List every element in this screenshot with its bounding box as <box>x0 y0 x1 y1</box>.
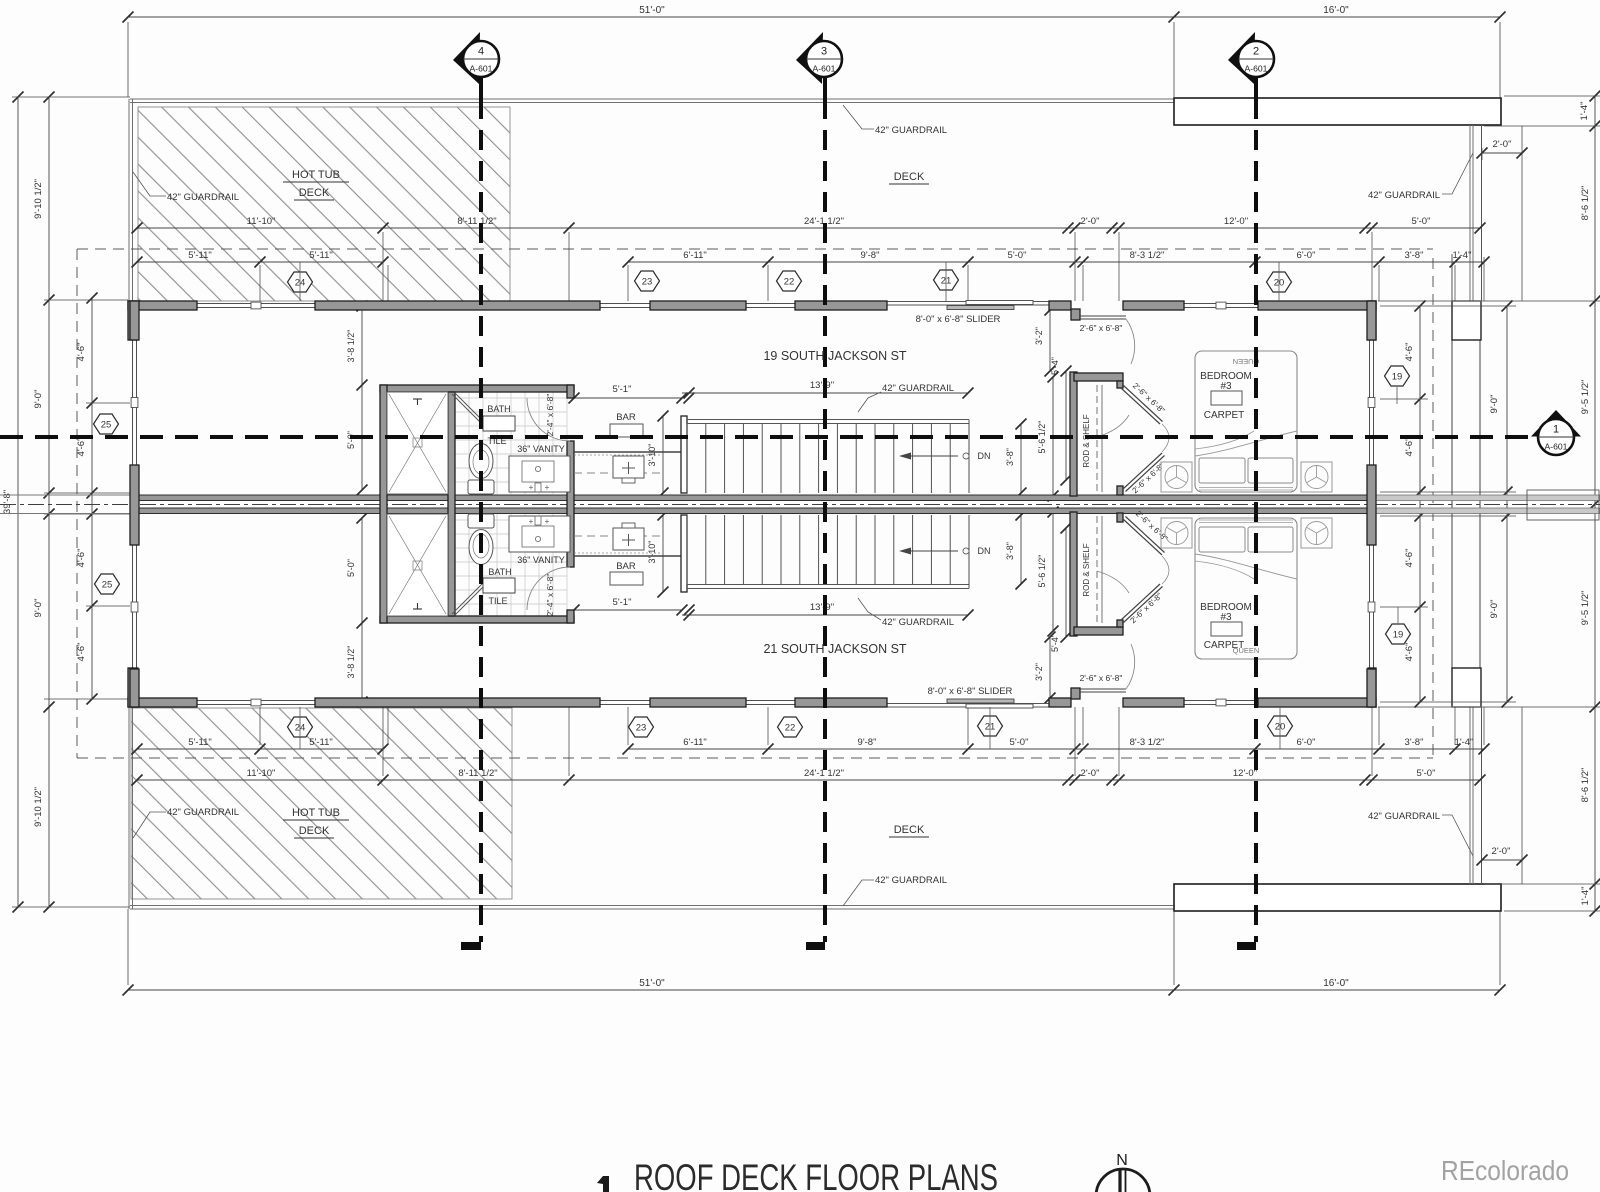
vanity bottom unit <box>509 516 570 552</box>
svg-text:ROD & SHELF: ROD & SHELF <box>1082 414 1091 467</box>
title number mark <box>603 1176 609 1192</box>
bath block tile grid top unit <box>454 392 456 494</box>
section marker 2/A-601 <box>1228 32 1255 84</box>
bath door arc top <box>527 398 570 441</box>
svg-text:42" GUARDRAIL: 42" GUARDRAIL <box>875 875 947 886</box>
setback dashed rectangle <box>77 248 1433 250</box>
svg-text:9'-8": 9'-8" <box>861 250 880 261</box>
party wall projection left <box>0 494 130 496</box>
hall dashes bottom <box>574 535 660 537</box>
dim 3-2 top <box>1049 310 1051 371</box>
svg-text:2: 2 <box>1253 46 1259 58</box>
svg-text:REcolorado: REcolorado <box>1441 1155 1569 1186</box>
shower door bottom <box>452 578 488 614</box>
window left wall upper <box>132 340 134 465</box>
svg-text:51'-0": 51'-0" <box>639 5 665 16</box>
grid bubble 24 <box>288 717 313 737</box>
svg-text:42" GUARDRAIL: 42" GUARDRAIL <box>1368 811 1440 822</box>
grid line 1 (horizontal) <box>0 435 1532 439</box>
svg-text:8'-11 1/2": 8'-11 1/2" <box>458 768 497 779</box>
hall dashes top <box>574 472 660 474</box>
bottom dim row 1 (inner) <box>137 748 383 750</box>
dim 3-8 stairs top <box>1020 424 1022 493</box>
svg-text:9'-0": 9'-0" <box>33 390 44 409</box>
left dim column 39-8 <box>17 97 19 907</box>
DN arrow bottom <box>908 550 958 552</box>
svg-text:5'-1": 5'-1" <box>613 384 632 395</box>
grid bubble 21 <box>934 270 959 290</box>
svg-text:3'-8": 3'-8" <box>1005 542 1015 560</box>
bath block tile grid bottom unit <box>454 514 456 616</box>
svg-text:13'-9": 13'-9" <box>810 602 834 613</box>
svg-text:8'-0" x 6'-8" SLIDER: 8'-0" x 6'-8" SLIDER <box>928 686 1013 697</box>
entry door jog top <box>1071 309 1080 320</box>
overall dimension row bottom : 51ft / 16ft <box>128 989 1500 991</box>
deck left edge lower <box>128 707 130 909</box>
right exterior wall <box>1367 301 1376 340</box>
toilet bottom unit <box>468 514 494 528</box>
svg-text:5'-11": 5'-11" <box>188 737 212 748</box>
window bottom wall 2 <box>600 700 650 702</box>
tub top unit <box>483 416 515 431</box>
svg-text:3: 3 <box>821 46 827 58</box>
svg-text:4'-6": 4'-6" <box>76 549 87 568</box>
svg-text:12'-0": 12'-0" <box>1233 768 1257 779</box>
grid bubble 23 <box>629 717 654 737</box>
svg-text:42" GUARDRAIL: 42" GUARDRAIL <box>1368 190 1440 201</box>
svg-text:4'-6": 4'-6" <box>76 438 87 457</box>
dim extension verticals bottom <box>259 707 261 745</box>
right deck edge line upper <box>1521 126 1523 301</box>
top exterior wall <box>128 301 197 310</box>
window bottom wall 3 <box>746 700 795 702</box>
svg-text:HOT TUB: HOT TUB <box>292 807 340 819</box>
svg-text:8'-0" x 6'-8" SLIDER: 8'-0" x 6'-8" SLIDER <box>916 314 1001 325</box>
dim 3-10 top <box>662 416 664 493</box>
dim 13-9 top <box>682 392 968 394</box>
shower drain bottom <box>413 608 422 610</box>
party wall centerline <box>0 504 1600 506</box>
grid bubble 19 <box>1386 624 1411 644</box>
right guardrail upper <box>1469 125 1471 301</box>
dim 5-6.5 closet bottom <box>1052 512 1054 631</box>
svg-text:3'-8": 3'-8" <box>1005 448 1015 466</box>
svg-text:11'-10": 11'-10" <box>247 216 276 227</box>
svg-text:42" GUARDRAIL: 42" GUARDRAIL <box>875 125 947 136</box>
grid line 2 <box>1254 77 1258 99</box>
svg-text:2'-0": 2'-0" <box>1493 139 1512 150</box>
bath block walls <box>380 385 574 392</box>
svg-text:DN: DN <box>978 451 991 461</box>
entry door arc bottom <box>1126 644 1135 689</box>
right deck edge line lower <box>1521 707 1523 884</box>
svg-text:A-601: A-601 <box>1245 64 1268 74</box>
svg-text:2'-0": 2'-0" <box>1492 846 1511 857</box>
svg-text:A-601: A-601 <box>470 64 493 74</box>
svg-text:16'-0": 16'-0" <box>1323 978 1349 989</box>
svg-text:9'-5 1/2": 9'-5 1/2" <box>1580 591 1591 626</box>
svg-text:CARPET: CARPET <box>1204 410 1245 421</box>
svg-text:ROD & SHELF: ROD & SHELF <box>1082 543 1091 596</box>
bifold door top-unit lower <box>1123 453 1162 489</box>
window top wall 1 <box>197 303 315 305</box>
shower door top <box>452 394 488 430</box>
entry door jog bottom <box>1071 688 1080 699</box>
DN arrow top <box>908 455 958 457</box>
svg-text:6'-11": 6'-11" <box>683 737 707 748</box>
toilet top unit <box>468 480 494 494</box>
svg-text:#3: #3 <box>1220 612 1232 623</box>
svg-text:CARPET: CARPET <box>1204 640 1245 651</box>
svg-text:#3: #3 <box>1220 381 1232 392</box>
left exterior wall <box>130 301 139 340</box>
nightstand bottom-left <box>1161 518 1192 548</box>
bifold door bottom-unit lower <box>1121 584 1160 620</box>
svg-text:+: + <box>545 483 550 492</box>
svg-text:5'-11": 5'-11" <box>188 250 212 261</box>
svg-text:22: 22 <box>784 277 795 288</box>
bottom exterior wall <box>128 698 197 707</box>
svg-text:HOT TUB: HOT TUB <box>292 169 340 181</box>
section marker 1/A-601 <box>1531 410 1581 437</box>
entry door leaf top <box>1080 315 1126 317</box>
bottom wall corner returns <box>128 668 138 707</box>
svg-text:22: 22 <box>785 723 796 734</box>
svg-text:21 SOUTH JACKSON ST: 21 SOUTH JACKSON ST <box>763 642 906 656</box>
svg-text:1'-4": 1'-4" <box>1455 737 1474 748</box>
shower drain top <box>413 398 422 400</box>
deck guardrail top <box>130 98 1174 100</box>
desk top unit <box>613 456 644 478</box>
svg-text:2'-6" x 6'-8": 2'-6" x 6'-8" <box>1080 673 1123 683</box>
dim 5-1 bottom <box>574 609 682 611</box>
svg-text:11'-10": 11'-10" <box>247 768 276 779</box>
svg-text:3'-8 1/2": 3'-8 1/2" <box>346 646 356 679</box>
svg-text:23: 23 <box>636 723 647 734</box>
window top wall 2 <box>600 303 650 305</box>
window right wall lower <box>1369 545 1371 669</box>
bifold door top-unit upper <box>1121 388 1160 424</box>
bed top unit <box>1195 351 1297 492</box>
svg-text:5'-0": 5'-0" <box>346 559 356 577</box>
svg-text:DN: DN <box>978 546 991 556</box>
svg-text:9'-0": 9'-0" <box>33 599 44 618</box>
window top wall 4 <box>1184 303 1258 305</box>
top wall corner returns <box>128 301 138 340</box>
top dim row 1 <box>137 227 1480 229</box>
svg-text:25: 25 <box>101 420 112 431</box>
grid bubble 19 <box>1385 366 1410 386</box>
svg-text:42" GUARDRAIL: 42" GUARDRAIL <box>167 807 239 818</box>
closet rod top <box>1096 385 1098 492</box>
closet wall bottom unit <box>1070 512 1077 636</box>
closet wall top unit <box>1070 372 1077 496</box>
dim 5-0 / 3-8.5 left of bath (bottom unit) <box>361 518 363 702</box>
svg-text:5'-0": 5'-0" <box>1010 737 1029 748</box>
tub bottom unit <box>483 578 515 593</box>
svg-text:5'-4": 5'-4" <box>1050 634 1060 652</box>
grid bubble 23 <box>635 271 660 291</box>
grid bubble 21 <box>978 716 1003 736</box>
right dim column 9-0 <box>1506 306 1508 702</box>
deck guardrail bottom <box>130 905 1174 907</box>
svg-text:1'-4": 1'-4" <box>1453 250 1472 261</box>
svg-text:+: + <box>529 483 534 492</box>
grid bubble 22 <box>777 271 802 291</box>
party wall lower leaf <box>130 508 1376 514</box>
deck band top-right <box>1174 98 1501 125</box>
vanity top unit <box>509 456 570 492</box>
svg-text:4'-6": 4'-6" <box>76 643 87 662</box>
svg-text:3'-8 1/2": 3'-8 1/2" <box>346 330 356 363</box>
svg-text:5'-1": 5'-1" <box>613 597 632 608</box>
grid bubble 25 <box>95 574 120 594</box>
svg-text:BAR: BAR <box>616 561 636 572</box>
svg-text:42" GUARDRAIL: 42" GUARDRAIL <box>167 192 239 203</box>
hall wall top unit <box>574 451 687 453</box>
svg-text:ROOF DECK FLOOR PLANS: ROOF DECK FLOOR PLANS <box>634 1157 998 1192</box>
svg-text:5'-6 1/2": 5'-6 1/2" <box>1037 555 1047 588</box>
svg-text:DECK: DECK <box>299 187 330 199</box>
grid line 3 <box>823 77 827 99</box>
svg-text:1'-4": 1'-4" <box>1580 887 1591 906</box>
hot tub deck (upper) hatch <box>138 107 510 301</box>
shower top unit <box>387 392 448 494</box>
svg-text:N: N <box>1116 1152 1128 1169</box>
svg-text:8'-6 1/2": 8'-6 1/2" <box>1580 768 1591 803</box>
svg-text:A-601: A-601 <box>813 64 836 74</box>
stair rails bottom <box>687 584 969 586</box>
svg-text:4'-6": 4'-6" <box>76 343 87 362</box>
nightstand top-right <box>1301 462 1332 492</box>
svg-text:3'-10": 3'-10" <box>647 541 657 564</box>
svg-text:5'-0": 5'-0" <box>1008 250 1027 261</box>
top dim row 2 <box>137 261 383 263</box>
closet rod bottom <box>1096 516 1098 623</box>
svg-text:42" GUARDRAIL: 42" GUARDRAIL <box>882 617 954 628</box>
section marker 3/A-601 <box>796 32 823 84</box>
closet door arcs bottom <box>1162 556 1169 584</box>
grid bubble 20 <box>1267 272 1292 292</box>
left dim column 4-6 <box>91 298 93 699</box>
svg-text:4: 4 <box>478 46 484 58</box>
svg-text:6'-0": 6'-0" <box>1297 250 1316 261</box>
party wall projection right <box>1376 495 1600 501</box>
dim 3-10 bottom <box>662 515 664 592</box>
dim 5-1 top <box>574 397 682 399</box>
stair newel plate bottom <box>681 515 687 592</box>
grid line 4 <box>479 77 483 99</box>
desk bottom unit <box>613 528 644 550</box>
2-0 dim bottom right <box>1482 859 1522 861</box>
nightstand bottom-right <box>1301 518 1332 548</box>
svg-text:9'-10 1/2": 9'-10 1/2" <box>33 179 44 219</box>
svg-text:5'-0": 5'-0" <box>346 431 356 449</box>
svg-text:1'-4": 1'-4" <box>1579 102 1590 121</box>
svg-text:9'-5 1/2": 9'-5 1/2" <box>1580 380 1591 415</box>
svg-text:3'-2": 3'-2" <box>1034 663 1044 681</box>
right walkway <box>1451 340 1453 668</box>
left dim extension horizontals <box>12 96 130 98</box>
svg-text:4'-6": 4'-6" <box>1404 438 1415 457</box>
deck band bottom-right <box>1174 884 1501 911</box>
entry door leaf bottom <box>1080 688 1126 690</box>
overall dimension row top : 51ft / 16ft <box>128 16 1500 18</box>
svg-text:8'-3 1/2": 8'-3 1/2" <box>1130 250 1165 261</box>
svg-text:2'-0": 2'-0" <box>1081 216 1100 227</box>
svg-text:19: 19 <box>1392 372 1403 383</box>
hall wall bottom unit <box>574 555 687 557</box>
hot tub deck (lower) hatch <box>131 708 512 899</box>
entry door arc top <box>1126 319 1135 364</box>
svg-text:2'-0": 2'-0" <box>1081 768 1100 779</box>
deck left edge upper <box>128 99 130 301</box>
svg-text:DECK: DECK <box>299 825 330 837</box>
slider door bottom <box>886 703 1049 705</box>
svg-text:9'-0": 9'-0" <box>1489 395 1500 414</box>
svg-text:36" VANITY: 36" VANITY <box>517 555 565 565</box>
stair rails top <box>687 419 969 421</box>
svg-text:3'-8": 3'-8" <box>1405 250 1424 261</box>
shower bottom unit <box>387 514 448 616</box>
svg-text:8'-6 1/2": 8'-6 1/2" <box>1580 186 1591 221</box>
window bottom wall 4 <box>1184 700 1258 702</box>
dim 5-6.5 closet top <box>1052 377 1054 496</box>
stair treads top unit <box>686 424 688 494</box>
svg-text:BATH: BATH <box>488 567 511 577</box>
bifold door bottom-unit upper <box>1123 519 1162 555</box>
svg-text:1: 1 <box>1553 424 1559 436</box>
dim 5-4 bottom <box>1065 528 1067 637</box>
window left wall lower <box>132 545 134 669</box>
2-0 dim top right <box>1482 152 1522 154</box>
svg-text:12'-0": 12'-0" <box>1224 216 1248 227</box>
dim 3-8 stairs bottom <box>1020 515 1022 584</box>
svg-text:51'-0": 51'-0" <box>639 978 665 989</box>
svg-text:5'-4": 5'-4" <box>1050 357 1060 375</box>
svg-text:5'-0": 5'-0" <box>1412 216 1431 227</box>
bubble leader lines <box>299 262 301 301</box>
svg-text:2'-4" x 6'-8": 2'-4" x 6'-8" <box>545 574 555 617</box>
svg-text:36" VANITY: 36" VANITY <box>517 444 565 454</box>
svg-text:4'-6": 4'-6" <box>1404 643 1415 662</box>
svg-text:2'-6" x 6'-8": 2'-6" x 6'-8" <box>1080 323 1123 333</box>
svg-text:9'-0": 9'-0" <box>1489 600 1500 619</box>
bed bottom unit <box>1195 518 1297 659</box>
svg-text:4'-6": 4'-6" <box>1404 343 1415 362</box>
svg-text:6'-11": 6'-11" <box>683 250 707 261</box>
grid bubble 24 <box>288 272 313 292</box>
svg-text:9'-8": 9'-8" <box>858 737 877 748</box>
grid bubble 25 <box>94 414 119 434</box>
closet door arcs top <box>1162 424 1169 452</box>
svg-text:5'-0": 5'-0" <box>1417 768 1436 779</box>
stair newel plate top <box>681 416 687 493</box>
section marker 4/A-601 <box>453 32 480 84</box>
svg-text:4'-6": 4'-6" <box>1404 549 1415 568</box>
svg-text:DECK: DECK <box>894 824 925 836</box>
svg-text:19 SOUTH JACKSON ST: 19 SOUTH JACKSON ST <box>763 349 906 363</box>
svg-text:16'-0": 16'-0" <box>1323 5 1349 16</box>
svg-text:3'-2": 3'-2" <box>1034 327 1044 345</box>
svg-text:DECK: DECK <box>894 171 925 183</box>
svg-text:5'-11": 5'-11" <box>309 737 333 748</box>
dim 3-8.5 / 5-0 left of bath (top unit) <box>361 306 363 490</box>
left dim column 9-10.5 / 9-0 <box>48 97 50 907</box>
window bottom wall 1 <box>197 700 315 702</box>
bottom dim row 2 (outer) <box>137 779 1480 781</box>
right guardrail lower <box>1469 707 1471 884</box>
svg-text:BATH: BATH <box>487 404 510 414</box>
svg-text:42" GUARDRAIL: 42" GUARDRAIL <box>882 383 954 394</box>
window right wall upper <box>1369 340 1371 465</box>
nightstand top-left <box>1161 462 1192 492</box>
svg-text:2'-4" x 6'-8": 2'-4" x 6'-8" <box>545 394 555 437</box>
svg-text:+: + <box>529 517 534 526</box>
dim 13-9 bottom <box>682 614 968 616</box>
grid bubble 20 <box>1268 716 1293 736</box>
dim 5-4 top <box>1065 371 1067 480</box>
svg-text:8'-3 1/2": 8'-3 1/2" <box>1130 737 1165 748</box>
svg-text:TILE: TILE <box>488 596 507 606</box>
svg-text:39'-8": 39'-8" <box>2 490 13 514</box>
svg-text:5'-6 1/2": 5'-6 1/2" <box>1037 421 1047 454</box>
dim 3-2 bottom <box>1049 637 1051 698</box>
svg-text:9'-10 1/2": 9'-10 1/2" <box>33 787 44 827</box>
svg-text:25: 25 <box>102 580 113 591</box>
svg-text:BAR: BAR <box>616 412 636 423</box>
grid bubble 22 <box>778 717 803 737</box>
slider door top <box>886 301 1049 303</box>
svg-text:A-601: A-601 <box>1545 442 1568 452</box>
svg-text:19: 19 <box>1393 630 1404 641</box>
right dim column 4-6 <box>1419 306 1421 702</box>
svg-text:3'-8": 3'-8" <box>1405 737 1424 748</box>
stair treads bottom unit <box>686 515 688 585</box>
svg-text:6'-0": 6'-0" <box>1297 737 1316 748</box>
svg-text:8'-11 1/2": 8'-11 1/2" <box>457 216 496 227</box>
bath door arc bottom <box>527 567 570 610</box>
svg-text:+: + <box>545 517 550 526</box>
dim extension verticals top <box>259 265 261 301</box>
svg-text:23: 23 <box>642 277 653 288</box>
svg-text:13'-9": 13'-9" <box>810 380 834 391</box>
party wall upper leaf <box>130 495 1376 501</box>
window top wall 3 <box>746 303 795 305</box>
right outer dim column <box>1594 96 1596 911</box>
svg-text:5'-11": 5'-11" <box>309 250 333 261</box>
right dim extension horizontals <box>1504 95 1600 97</box>
